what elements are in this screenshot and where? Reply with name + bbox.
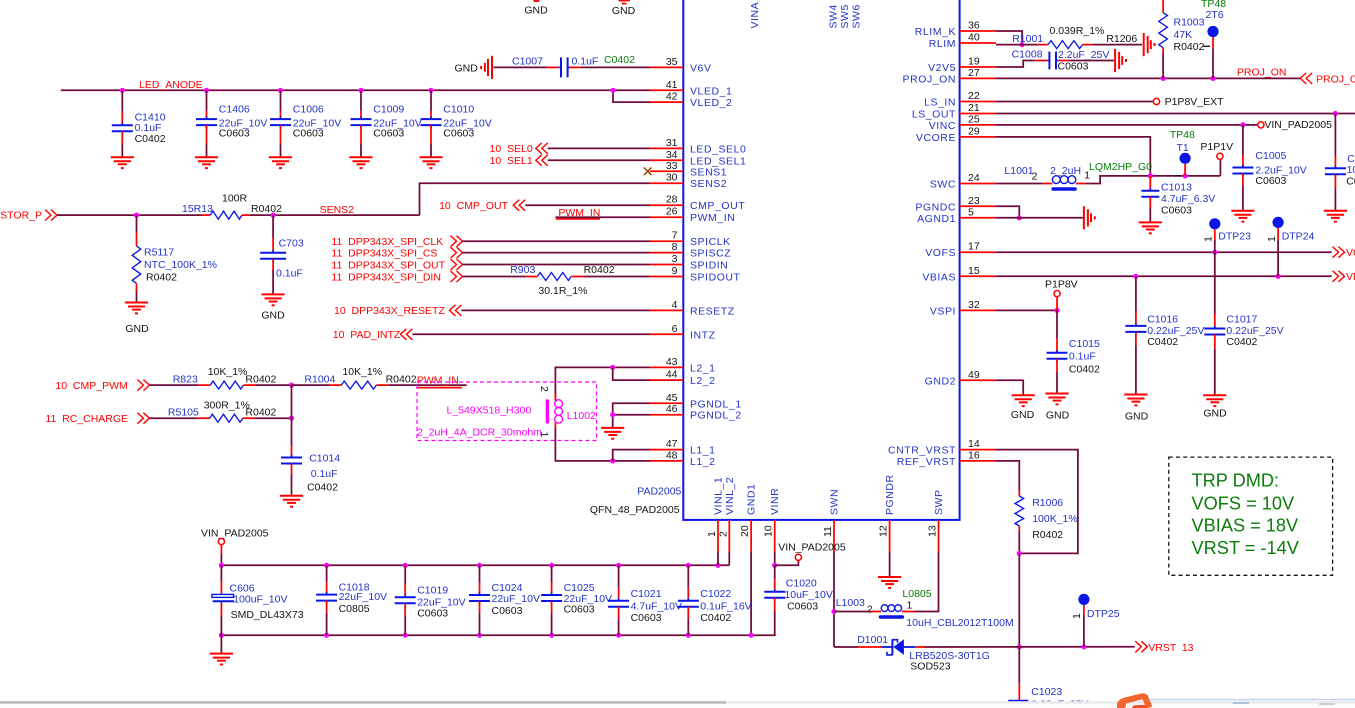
terminal P1P8V_EXT <box>1153 98 1159 104</box>
svg-text:17: 17 <box>968 241 980 253</box>
svg-text:PAD2005: PAD2005 <box>637 486 681 498</box>
wire to P1P1V <box>1219 160 1221 176</box>
svg-text:11 DPP343X_SPI_CLK: 11 DPP343X_SPI_CLK <box>331 236 443 248</box>
svg-text:10 CMP_PWM: 10 CMP_PWM <box>55 380 127 392</box>
terminal P1P8V <box>1054 291 1060 297</box>
svg-text:C1016: C1016 <box>1147 314 1178 326</box>
wire LED_ANODE rail <box>61 89 650 91</box>
svg-text:16: 16 <box>968 449 980 461</box>
svg-text:THERMISTOR_P: THERMISTOR_P <box>0 210 42 222</box>
svg-text:41: 41 <box>666 79 678 91</box>
ground for edge cap <box>1324 210 1347 212</box>
ground (top, partial) near C1007 net <box>533 0 539 2</box>
svg-text:0.1uF_16V: 0.1uF_16V <box>700 601 751 613</box>
capacitor C1010 22uF_10V <box>428 88 433 93</box>
resistor R5105 300R_1% <box>198 417 210 419</box>
ground (top, partial) #2 <box>619 0 630 2</box>
junction DTP24 <box>1276 274 1281 279</box>
ground for R5117 <box>125 302 148 304</box>
svg-text:C0603: C0603 <box>417 608 448 620</box>
svg-text:DTP24: DTP24 <box>1282 231 1315 243</box>
ground for C1006 <box>269 156 292 158</box>
junction AGND1 <box>1017 215 1022 220</box>
pin 33 SENS1 (left) <box>650 170 683 172</box>
svg-text:LED_SEL0: LED_SEL0 <box>690 143 746 155</box>
wire C1007 to pin 35 <box>569 66 581 68</box>
scrollbar thumb <box>0 701 726 703</box>
svg-text:32: 32 <box>968 299 980 311</box>
svg-text:VLED_1: VLED_1 <box>690 85 732 97</box>
pin 10 VINR (bottom) <box>774 520 776 552</box>
svg-text:PWM_IN: PWM_IN <box>417 375 459 387</box>
svg-text:P1P8V: P1P8V <box>1045 279 1078 291</box>
svg-text:11 RC_CHARGE: 11 RC_CHARGE <box>45 413 128 425</box>
pin 19 V2V5 (right) <box>960 66 996 68</box>
capacitor C(edge) on LS_OUT <box>1334 114 1336 157</box>
wire SPIDOUT left <box>463 276 526 278</box>
capacitor C1018 22uF_10V <box>324 563 329 568</box>
wire RLIM_K to RLIM <box>996 31 1022 45</box>
svg-text:4: 4 <box>672 299 678 311</box>
pin 1 VINL_1 (bottom) <box>717 520 719 552</box>
wire REF_VRST <box>996 461 1019 491</box>
wire PGNDL <box>613 403 650 427</box>
svg-text:C1015: C1015 <box>1069 338 1100 350</box>
svg-text:SPIDIN: SPIDIN <box>690 260 728 272</box>
svg-text:R0402: R0402 <box>584 264 615 276</box>
pin 13 SWP (bottom) <box>938 520 940 552</box>
wire PROJ_ON <box>996 77 1300 79</box>
wire SENS2 <box>250 214 420 216</box>
wire VIN rail (top) <box>221 564 729 566</box>
svg-text:L2_2: L2_2 <box>690 375 716 387</box>
svg-text:R0402: R0402 <box>1174 41 1205 53</box>
svg-text:L1_1: L1_1 <box>690 445 716 457</box>
svg-text:14: 14 <box>968 438 980 450</box>
wire GND rail (bottom) <box>221 634 775 636</box>
underlying page line (light blue) <box>1150 699 1355 701</box>
svg-text:L0805: L0805 <box>902 588 931 600</box>
wire L2_2 branch <box>613 367 650 380</box>
svg-text:30.1R_1%: 30.1R_1% <box>538 285 587 297</box>
svg-text:R1001: R1001 <box>1012 33 1043 45</box>
pin 35 V6V (left) <box>650 66 683 68</box>
junction DTP25 <box>1081 644 1086 649</box>
pin 26 PWM_IN (left) <box>650 216 683 218</box>
svg-text:SW5: SW5 <box>839 4 851 28</box>
wire RLIM <box>996 44 1037 46</box>
capacitor C1017 0.22uF_25V <box>1214 252 1216 314</box>
wire VOFS <box>996 251 1332 253</box>
resistor R903 30.1R_1% <box>525 276 537 278</box>
junction C703 <box>271 213 276 218</box>
svg-text:SPIDOUT: SPIDOUT <box>690 272 741 284</box>
ground for PGNDR <box>889 552 891 577</box>
pin 34 LED_SEL1 (left) <box>650 159 683 161</box>
pin 2 VINL_2 (bottom) <box>728 520 730 552</box>
svg-text:1: 1 <box>538 432 550 438</box>
resistor R1003 47K <box>1162 0 1164 13</box>
svg-text:SPICLK: SPICLK <box>690 236 731 248</box>
pin 46 PGNDL_2 (left) <box>650 414 683 416</box>
inductor L1002 box (dashed) <box>417 382 597 441</box>
capacitor C1021 4.7uF_10V <box>616 563 621 568</box>
wire VRST <box>925 646 1135 648</box>
junction L2 <box>610 365 615 370</box>
svg-text:VRST = -14V: VRST = -14V <box>1192 538 1300 558</box>
svg-text:TRP DMD:: TRP DMD: <box>1192 471 1280 491</box>
junction R5117 <box>134 213 139 218</box>
svg-text:R0402: R0402 <box>386 374 417 386</box>
port PROJ_ON (right) <box>1300 73 1306 84</box>
svg-text:C0603: C0603 <box>373 128 404 140</box>
wire CNTR_VRST <box>996 450 1078 554</box>
wire LS_IN <box>996 101 1153 103</box>
svg-text:GND: GND <box>455 63 479 75</box>
svg-text:R1003: R1003 <box>1174 16 1205 28</box>
svg-text:42: 42 <box>666 91 678 103</box>
svg-text:L2_1: L2_1 <box>690 362 716 374</box>
svg-text:C1017: C1017 <box>1226 314 1257 326</box>
port VOFS (right) <box>1339 247 1345 258</box>
pin 49 GND2 (right) <box>960 379 996 381</box>
wire CMP_PWM to R823 <box>149 384 198 386</box>
junction VINR rail <box>772 563 777 568</box>
ground for C1010 <box>419 156 442 158</box>
svg-text:8: 8 <box>672 241 678 253</box>
capacitor C1005 2.2uF_10V <box>1242 125 1244 155</box>
svg-text:VOFS: VOFS <box>1346 247 1355 259</box>
svg-text:21: 21 <box>968 102 980 114</box>
wire L2 net <box>555 367 650 400</box>
pin 41 VLED_1 (left) <box>650 89 683 91</box>
pin 42 VLED_2 (left) <box>650 101 683 103</box>
svg-text:33: 33 <box>666 160 678 172</box>
svg-text:PWM_IN: PWM_IN <box>690 212 735 224</box>
junction RLIM <box>1020 42 1025 47</box>
pin 22 LS_IN (right) <box>960 101 996 103</box>
svg-text:0.1uF: 0.1uF <box>135 122 162 134</box>
svg-text:10: 10 <box>763 525 775 537</box>
svg-text:L1003: L1003 <box>836 597 865 609</box>
svg-text:22: 22 <box>968 90 980 102</box>
wire L1003 to SWP <box>915 552 939 612</box>
svg-text:C1005: C1005 <box>1255 150 1286 162</box>
svg-text:PGNDR: PGNDR <box>884 474 896 515</box>
svg-text:C1007: C1007 <box>512 56 543 68</box>
junction TP 2T6/PROJ_ON <box>1210 76 1215 81</box>
wire C1008 to ground <box>1069 60 1114 62</box>
wire VSPI <box>996 309 1057 311</box>
junction node RC <box>289 416 294 421</box>
resistor R5117 NTC_100K_1% <box>136 215 138 232</box>
note box TRP DMD <box>1169 457 1333 575</box>
svg-text:VIN_PAD2005: VIN_PAD2005 <box>1264 119 1332 131</box>
svg-text:PGNDL_2: PGNDL_2 <box>690 410 742 422</box>
wire GND to C1007 <box>494 66 547 68</box>
pin 14 CNTR_VRST (right) <box>960 449 996 451</box>
wire V2V5 <box>996 61 1035 68</box>
svg-text:2_2uH_4A_DCR_30mohm: 2_2uH_4A_DCR_30mohm <box>417 427 542 439</box>
svg-text:C1022: C1022 <box>700 588 731 600</box>
ground for C1410 <box>111 156 134 158</box>
svg-text:VIN_PAD2005: VIN_PAD2005 <box>778 542 846 554</box>
wire VBIAS <box>996 275 1332 277</box>
capacitor C1013 4.7uF_6.3V <box>1149 176 1151 191</box>
diode D1001 LRB520S-30T1G <box>858 646 882 648</box>
svg-text:100K_1%: 100K_1% <box>1032 513 1078 525</box>
svg-text:19: 19 <box>968 56 980 68</box>
testpoint DTP25 <box>1078 594 1089 605</box>
capacitor C1007 0.1uF <box>560 57 562 77</box>
svg-text:C1010: C1010 <box>443 104 474 116</box>
svg-text:C0402: C0402 <box>700 612 731 624</box>
svg-text:0.1uF: 0.1uF <box>572 56 599 68</box>
capacitor C1024 22uF_10V <box>477 563 482 568</box>
junction C1013/VCORE <box>1148 173 1153 178</box>
svg-text:10 DPP343X_RESETZ: 10 DPP343X_RESETZ <box>334 305 445 317</box>
pin 7 SPICLK (left) <box>650 240 683 242</box>
port VBIAS (right) <box>1339 271 1345 282</box>
pin 16 REF_VRST (right) <box>960 460 996 462</box>
svg-text:10 CMP_OUT: 10 CMP_OUT <box>439 200 508 212</box>
ground (sideways) for C1007 <box>491 56 493 79</box>
svg-text:VINA: VINA <box>749 2 761 29</box>
svg-text:RLIM: RLIM <box>929 38 956 50</box>
svg-text:PROJ_ON: PROJ_ON <box>1237 67 1287 79</box>
svg-text:GND: GND <box>524 5 548 17</box>
svg-text:VBIAS = 18V: VBIAS = 18V <box>1192 516 1300 536</box>
inductor L1003 10uH_CBL2012T100M <box>834 611 870 613</box>
svg-text:TP48: TP48 <box>1170 129 1195 141</box>
junction T1 <box>1183 173 1188 178</box>
svg-text:SMD_DL43X73: SMD_DL43X73 <box>231 609 304 621</box>
svg-text:VOFS: VOFS <box>925 247 956 259</box>
svg-text:22uF_10V: 22uF_10V <box>492 593 540 605</box>
pin 15 VBIAS (right) <box>960 275 996 277</box>
capacitor C1025 22uF_10V <box>549 563 554 568</box>
svg-text:LS_OUT: LS_OUT <box>912 109 956 121</box>
svg-text:PROJ_ON: PROJ_ON <box>1316 74 1355 86</box>
svg-text:C0603: C0603 <box>787 600 818 612</box>
svg-text:CNTR_VRST: CNTR_VRST <box>888 445 956 457</box>
ground for C703 <box>262 293 285 295</box>
pin 4 RESETZ (left) <box>650 309 683 311</box>
svg-text:C0402: C0402 <box>604 54 635 66</box>
svg-text:AGND1: AGND1 <box>917 213 956 225</box>
svg-text:VBIAS: VBIAS <box>1346 271 1355 283</box>
svg-text:DTP23: DTP23 <box>1218 231 1251 243</box>
svg-text:15: 15 <box>968 265 980 277</box>
inductor L1002 coil <box>555 400 563 408</box>
svg-text:1: 1 <box>1084 170 1090 182</box>
svg-text:GND2: GND2 <box>925 375 956 387</box>
resistor R1006 100K_1% <box>1018 491 1020 496</box>
svg-text:10K_1%: 10K_1% <box>208 366 248 378</box>
svg-text:GND1: GND1 <box>746 484 758 515</box>
wire LS_OUT <box>996 113 1355 115</box>
junction C1005 <box>1240 122 1245 127</box>
pin 12 PGNDR (bottom) <box>889 520 891 552</box>
ground for GND2 <box>1012 394 1035 396</box>
svg-text:100uF_10V: 100uF_10V <box>233 594 287 606</box>
svg-text:25: 25 <box>968 113 980 125</box>
ground for C1005 <box>1231 210 1254 212</box>
pin 11 SWN (bottom) <box>833 520 835 552</box>
ground for C1013 <box>1139 221 1162 223</box>
wire PWM_IN pin26 <box>555 216 650 218</box>
svg-text:15R13: 15R13 <box>182 203 213 215</box>
wire SPIDOUT right <box>584 276 651 278</box>
scrollbar track <box>0 701 1355 703</box>
svg-text:43: 43 <box>666 356 678 368</box>
svg-text:SW6: SW6 <box>851 4 863 28</box>
terminal VIN_PAD2005 (right) <box>1258 122 1264 128</box>
svg-text:GND: GND <box>125 323 149 335</box>
svg-text:10uH_CBL2012T100M: 10uH_CBL2012T100M <box>906 617 1013 629</box>
capacitor C1023 (bottom, cut) <box>1018 647 1020 684</box>
svg-text:4.7uF_10V: 4.7uF_10V <box>631 601 682 613</box>
svg-text:C0603: C0603 <box>219 128 250 140</box>
svg-text:4.7uF_6.3V: 4.7uF_6.3V <box>1161 193 1215 205</box>
capacitor C1019 22uF_10V <box>403 563 408 568</box>
svg-text:GND: GND <box>1203 408 1227 420</box>
terminal P1P1V <box>1217 153 1223 159</box>
wire node vertical <box>291 385 293 418</box>
svg-text:C1008: C1008 <box>1012 49 1043 61</box>
pin 5 AGND1 (right) <box>960 217 996 219</box>
pin 27 PROJ_ON (right) <box>960 77 996 79</box>
resistor R823 10K_1% <box>198 384 210 386</box>
svg-text:R903: R903 <box>510 264 535 276</box>
svg-text:C1020: C1020 <box>786 577 817 589</box>
svg-text:47: 47 <box>666 438 678 450</box>
svg-text:C1406: C1406 <box>219 104 250 116</box>
pin 17 VOFS (right) <box>960 251 996 253</box>
wire R1001 to ground <box>1092 44 1142 46</box>
svg-text:SWC: SWC <box>930 179 956 191</box>
svg-text:24: 24 <box>968 172 980 184</box>
svg-text:45: 45 <box>666 392 678 404</box>
svg-text:SENS1: SENS1 <box>690 166 727 178</box>
svg-text:49: 49 <box>968 369 980 381</box>
logo (orange, partial) <box>1117 693 1152 708</box>
wire VLED_2 branch <box>613 90 650 102</box>
svg-text:L1_2: L1_2 <box>690 456 716 468</box>
svg-text:SW4: SW4 <box>828 4 840 28</box>
svg-text:P1P8V_EXT: P1P8V_EXT <box>1165 96 1225 108</box>
svg-text:D1001: D1001 <box>857 634 888 646</box>
svg-text:13: 13 <box>927 525 939 537</box>
junction LS_OUT cap <box>1333 111 1338 116</box>
wire VCORE <box>996 137 1150 176</box>
svg-text:C0603: C0603 <box>293 128 324 140</box>
svg-text:11 DPP343X_SPI_DIN: 11 DPP343X_SPI_DIN <box>331 272 441 284</box>
svg-text:GND: GND <box>612 5 636 17</box>
ground for C1017 <box>1203 394 1226 396</box>
svg-text:V2V5: V2V5 <box>928 62 956 74</box>
testpoint DTP24 <box>1273 217 1284 228</box>
ground for C1009 <box>349 156 372 158</box>
pin 30 SENS2 (left) <box>650 182 683 184</box>
svg-text:CMP_OUT: CMP_OUT <box>690 200 745 212</box>
svg-text:C1014: C1014 <box>309 453 340 465</box>
svg-text:11 DPP343X_SPI_CS: 11 DPP343X_SPI_CS <box>331 248 437 260</box>
svg-text:C1021: C1021 <box>631 588 662 600</box>
junction PGNDL <box>610 412 615 417</box>
svg-text:L1001: L1001 <box>1004 165 1033 177</box>
wire SWN to D1001 <box>834 646 858 648</box>
wire CMP_OUT <box>525 204 650 206</box>
svg-text:REF_VRST: REF_VRST <box>897 456 956 468</box>
svg-text:C06: C06 <box>1346 175 1355 187</box>
svg-text:SENS2: SENS2 <box>690 178 727 190</box>
svg-text:36: 36 <box>968 20 980 32</box>
junction R1006/CNTR <box>1017 551 1022 556</box>
svg-text:C0603: C0603 <box>631 612 662 624</box>
pin 36 RLIM_K (right) <box>960 30 996 32</box>
svg-text:GND: GND <box>261 310 285 322</box>
wire VINC <box>996 124 1258 126</box>
svg-text:C1024: C1024 <box>492 582 523 594</box>
pin 1 label 2T6 <box>1203 45 1211 47</box>
junction VRST/C1023 <box>1017 644 1022 649</box>
wire PGNDC <box>996 206 1019 218</box>
wire GND1 to bottom rail <box>750 552 752 635</box>
svg-text:7: 7 <box>672 230 678 242</box>
wire R1004 to PWM_IN label <box>388 384 466 386</box>
svg-text:LS_IN: LS_IN <box>924 97 956 109</box>
svg-text:C0402: C0402 <box>1069 364 1100 376</box>
svg-text:10 SEL0: 10 SEL0 <box>490 143 533 155</box>
svg-text:C1009: C1009 <box>373 104 404 116</box>
svg-text:PROJ_ON: PROJ_ON <box>903 73 956 85</box>
svg-text:R1206: R1206 <box>1106 33 1137 45</box>
wire VRST vertical <box>1018 553 1020 646</box>
svg-text:C1019: C1019 <box>417 585 448 597</box>
svg-text:20: 20 <box>739 525 751 537</box>
svg-text:SENS2: SENS2 <box>320 204 355 216</box>
svg-text:0.039R_1%: 0.039R_1% <box>1050 25 1105 37</box>
junction C1016 <box>1133 274 1138 279</box>
wire VINR to rail <box>774 552 776 565</box>
svg-text:2.2uF_25V: 2.2uF_25V <box>1058 49 1109 61</box>
svg-text:L_549X518_H300: L_549X518_H300 <box>447 405 532 417</box>
ground for PGNDL <box>601 427 624 429</box>
svg-text:2_2uH: 2_2uH <box>1050 165 1081 177</box>
svg-text:SWP: SWP <box>933 489 945 515</box>
ground (sideways) for R1001 <box>1143 33 1145 56</box>
svg-text:22uF_10V: 22uF_10V <box>339 591 387 603</box>
svg-text:QFN_48_PAD2005: QFN_48_PAD2005 <box>590 504 680 516</box>
pin 23 PGNDC (right) <box>960 205 996 207</box>
pin 40 RLIM (right) <box>960 42 996 44</box>
svg-text:300R_1%: 300R_1% <box>204 400 250 412</box>
svg-text:C0603: C0603 <box>564 604 595 616</box>
pin 45 PGNDL_1 (left) <box>650 402 683 404</box>
svg-text:VRST 13: VRST 13 <box>1148 642 1193 654</box>
svg-text:LQM2HP_G0: LQM2HP_G0 <box>1089 161 1152 173</box>
wire L1 net <box>554 423 556 429</box>
svg-text:46: 46 <box>666 403 678 415</box>
svg-text:C0603: C0603 <box>1058 61 1089 73</box>
pin 29 VCORE (right) <box>960 136 996 138</box>
svg-text:0.1uF: 0.1uF <box>1069 350 1096 362</box>
svg-text:29: 29 <box>968 125 980 137</box>
svg-text:1: 1 <box>706 531 718 537</box>
pin 20 GND1 (bottom) <box>750 520 752 552</box>
svg-text:VINL_2: VINL_2 <box>724 477 736 515</box>
